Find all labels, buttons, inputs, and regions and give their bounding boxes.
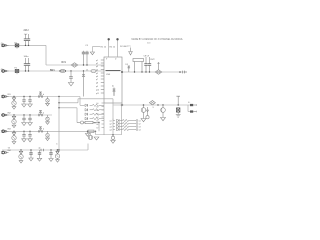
wire output top (122, 71, 187, 73)
transistor Q2 (13, 114, 14, 115)
svg-text:p6: p6 (96, 76, 98, 78)
svg-text:k7: k7 (97, 127, 99, 129)
varistor RV2 arrow (158, 62, 160, 70)
transistor Q4 (20, 149, 21, 150)
svg-text:IN1: IN1 (8, 94, 12, 96)
svg-text:o1: o1 (139, 120, 141, 122)
svg-text:R5: R5 (94, 122, 96, 124)
capacitor ch1-2 (29, 96, 30, 97)
svg-text:1kV: 1kV (24, 34, 28, 36)
resistor R3 (88, 130, 94, 132)
svg-text:d: d (43, 94, 44, 96)
opto row A2 (85, 109, 88, 112)
svg-text:rev: rev (128, 46, 131, 48)
svg-text:V+: V+ (188, 102, 190, 104)
wire G (2, 149, 88, 151)
svg-text:p7: p7 (96, 79, 98, 81)
ground G3 (94, 137, 99, 140)
terminal out1 (179, 71, 181, 73)
diode pair ch4 (40, 149, 42, 151)
wire gnd link (92, 46, 100, 48)
fuse F1 (15, 44, 19, 47)
svg-text:d: d (43, 129, 44, 131)
arrow down symbol (130, 48, 132, 52)
varistor RV1 (71, 63, 78, 68)
svg-text:dz: dz (112, 86, 114, 88)
wire R5-F link (98, 123, 100, 132)
capacitor C3 (83, 51, 85, 52)
connector J1 (2, 44, 5, 47)
svg-text:C3: C3 (85, 45, 88, 47)
varistor RV3 (149, 101, 155, 105)
capacitor ch2-2 (29, 114, 30, 115)
diode pair ch2 (38, 114, 40, 116)
ground G1 (90, 52, 94, 55)
capacitor ch1-1 (23, 96, 24, 97)
capacitor C2 (28, 34, 30, 39)
svg-text:a1: a1 (110, 120, 112, 122)
opto row A4 (85, 117, 88, 120)
wire D corner (79, 97, 81, 106)
svg-text:R2 1k: R2 1k (110, 46, 116, 48)
svg-text:o4: o4 (139, 129, 141, 131)
diode pair ch3 (38, 130, 40, 132)
svg-text:F2: F2 (15, 67, 18, 69)
svg-text:p9: p9 (96, 86, 98, 88)
svg-text:k6: k6 (97, 124, 99, 126)
lamp P2 (177, 97, 179, 106)
wire bus (58, 97, 60, 151)
svg-text:dz: dz (39, 147, 41, 149)
diode D5 (128, 66, 130, 72)
transistor Q1 (13, 96, 14, 97)
wire vertical mid (112, 102, 114, 104)
svg-text:500: 500 (147, 43, 151, 45)
wire out2 link (187, 105, 189, 112)
svg-text:RV1: RV1 (62, 62, 67, 64)
capacitor C7 to ground (70, 70, 71, 71)
svg-text:k5: k5 (97, 120, 99, 122)
IC U1 internal diode (113, 88, 115, 97)
svg-text:V: V (153, 107, 155, 109)
terminal out2b (190, 110, 193, 112)
svg-text:D5: D5 (126, 64, 128, 66)
diode D1 (83, 75, 85, 97)
wire corner A-B (45, 45, 47, 65)
wire L input (wire A) (2, 44, 46, 46)
capacitor ch2-1 (23, 114, 24, 115)
IC U1 name (106, 70, 121, 72)
led DL1 (147, 107, 149, 116)
ground G4 (87, 131, 89, 133)
svg-text:a4: a4 (110, 129, 112, 131)
svg-text:MADE BY A DESIGN OF 3 CHANNEL: MADE BY A DESIGN OF 3 CHANNEL RL MODUL (132, 38, 184, 41)
terminal out2a (190, 104, 193, 106)
connector J4 (2, 114, 5, 117)
svg-text:V: V (106, 59, 108, 61)
svg-text:o2: o2 (139, 123, 141, 125)
varistor RV2 (155, 70, 162, 75)
wire D (2, 96, 80, 98)
transistor Q5 (57, 149, 59, 151)
fuse F2 (15, 70, 19, 73)
svg-text:p1: p1 (96, 60, 98, 62)
capacitor C17 (162, 105, 164, 108)
thermistor ch2 (47, 115, 49, 117)
wire IC left rail (103, 103, 105, 135)
svg-text:p8: p8 (96, 82, 98, 84)
IC U1 left pins (101, 59, 104, 61)
capacitor ch4c (50, 149, 51, 150)
svg-text:b: b (57, 144, 58, 146)
wire bus group2 (112, 119, 114, 121)
wire step2 (59, 107, 77, 109)
junction dots (157, 104, 158, 105)
capacitor ch4b (39, 150, 41, 153)
capacitor C15 (149, 57, 151, 64)
svg-text:p5: p5 (96, 73, 98, 75)
svg-text:R1 1k: R1 1k (101, 46, 107, 48)
wire IC bottom (121, 103, 123, 105)
connector J6 (2, 151, 5, 154)
wire E (2, 114, 52, 116)
wire mid (95, 131, 97, 134)
svg-text:100n: 100n (24, 56, 30, 58)
transformer T1 (88, 135, 92, 139)
svg-text:a3: a3 (110, 126, 112, 128)
connector P1 pin labels (102, 106, 105, 108)
wire step1 (59, 102, 78, 104)
connector J3 (2, 95, 5, 98)
svg-text:p2: p2 (96, 63, 98, 65)
svg-text:p11: p11 (96, 93, 99, 95)
connector J2 (2, 70, 5, 73)
capacitor C5 (25, 58, 27, 64)
inductor L1 (91, 70, 96, 73)
ground G2 (112, 134, 114, 136)
svg-text:IN2: IN2 (8, 112, 12, 114)
fuse F3 (60, 69, 66, 72)
svg-text:IN3: IN3 (8, 129, 12, 131)
diode pair ch1 (38, 95, 40, 97)
transistor Q3 (13, 131, 14, 132)
svg-text:a2: a2 (110, 123, 112, 125)
svg-text:p3: p3 (96, 66, 98, 68)
thermistor ch1 (47, 97, 49, 99)
svg-text:o3: o3 (139, 126, 141, 128)
svg-text:BR1: BR1 (50, 69, 55, 72)
svg-text:223J: 223J (24, 30, 29, 32)
svg-text:RV2: RV2 (151, 59, 156, 61)
IC U1 box (104, 57, 122, 103)
svg-text:p10: p10 (96, 89, 99, 91)
svg-text:C8 C9: C8 C9 (144, 55, 151, 57)
svg-text:d: d (43, 112, 44, 114)
resistor R4 snubber (134, 62, 136, 73)
opto row A3 (85, 113, 88, 116)
wire Vcc pin 1 (108, 40, 110, 57)
capacitor C1 (25, 34, 27, 39)
wire N input (wire C) (2, 70, 104, 72)
capacitor C14 (145, 57, 147, 64)
capacitor ch4a (30, 149, 32, 151)
opto row A1 (85, 104, 88, 107)
resistor R5 row (77, 122, 80, 124)
wire B (46, 64, 104, 66)
capacitor C6 (28, 58, 30, 64)
capacitor ch3-2 (29, 131, 30, 132)
svg-text:D: D (115, 59, 117, 61)
capacitor C16 (143, 104, 145, 106)
wire bottom (96, 134, 122, 136)
svg-text:p4: p4 (96, 69, 98, 71)
wire F (2, 130, 96, 132)
capacitor C4 (86, 51, 88, 52)
connector J5 (2, 130, 5, 133)
wire drain pin 2 (117, 40, 119, 57)
thermistor ch3 (47, 131, 49, 133)
capacitor ch3-1 (23, 131, 24, 132)
svg-text:LNK: LNK (106, 74, 111, 76)
junction X (121, 104, 123, 106)
wire step1 drop (112, 99, 114, 135)
